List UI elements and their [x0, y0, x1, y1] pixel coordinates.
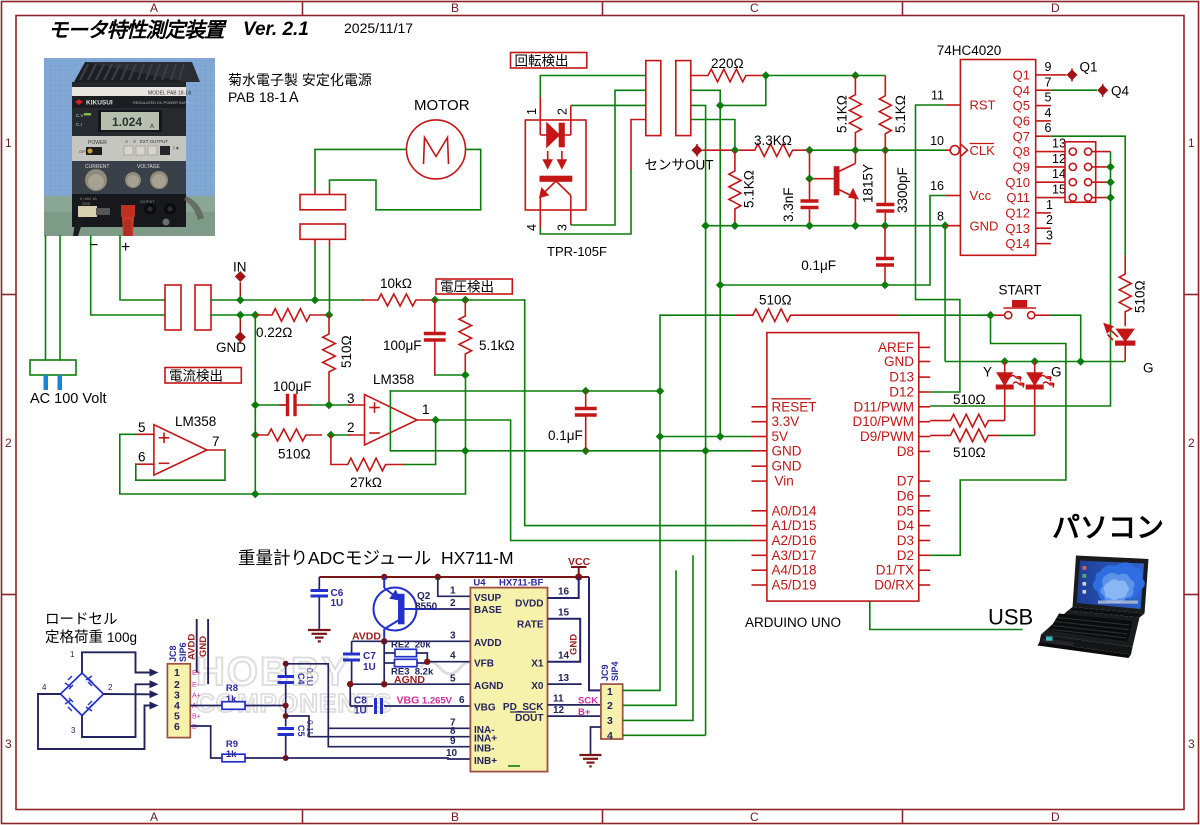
svg-text:D: D: [1051, 1, 1060, 15]
svg-text:1U: 1U: [331, 598, 344, 609]
svg-text:3.3KΩ: 3.3KΩ: [754, 133, 792, 148]
svg-text:C: C: [750, 1, 759, 15]
svg-text:JC8: JC8: [168, 645, 178, 662]
svg-text:G: G: [1051, 365, 1062, 380]
svg-text:C.I: C.I: [76, 122, 82, 127]
svg-text:+: +: [121, 239, 130, 256]
svg-text:9: 9: [450, 736, 456, 747]
svg-text:Y: Y: [983, 365, 992, 380]
svg-text:USB: USB: [988, 605, 1033, 630]
svg-text:START: START: [999, 283, 1042, 298]
wire TPR pin1 row: [540, 76, 646, 98]
resistor 27k: [331, 435, 405, 471]
wire clk row: [810, 149, 947, 151]
wire motor conn to IN node: [314, 246, 316, 300]
svg-text:0.1μF: 0.1μF: [548, 428, 583, 443]
LED Y: [997, 362, 1025, 421]
svg-text:AVDD: AVDD: [187, 634, 198, 660]
svg-text:AGND: AGND: [474, 681, 503, 692]
wire motor conn to sense node: [329, 246, 331, 315]
capacitor 100uF input: [255, 396, 329, 415]
svg-text:GND: GND: [216, 340, 246, 355]
wire 27k feedback: [405, 420, 436, 465]
svg-text:1.024: 1.024: [112, 115, 142, 129]
svg-text:74HC4020: 74HC4020: [937, 43, 1002, 58]
svg-text:1815Y: 1815Y: [861, 164, 876, 203]
svg-text:11: 11: [931, 89, 944, 103]
label 回転検出: [511, 53, 587, 69]
RE2 RE3: [384, 641, 470, 684]
svg-text:2: 2: [1046, 213, 1053, 227]
wire 510 pullup column: [254, 315, 256, 494]
svg-text:15: 15: [558, 608, 570, 619]
svg-text:510Ω: 510Ω: [953, 445, 986, 460]
svg-text:A1/D15: A1/D15: [772, 518, 817, 533]
svg-text:VOLTAGE: VOLTAGE: [137, 164, 161, 170]
IC 74HC4020: [946, 60, 1069, 256]
svg-text:12: 12: [1052, 152, 1066, 166]
bridge wires: [38, 652, 150, 749]
svg-text:IN: IN: [233, 260, 247, 275]
svg-text:GND: GND: [82, 202, 91, 206]
svg-text:センサOUT: センサOUT: [645, 158, 714, 173]
watermark: [196, 650, 480, 718]
AC plug: [30, 360, 76, 375]
svg-text:2: 2: [556, 108, 570, 115]
svg-text:C.V: C.V: [76, 113, 84, 118]
connector J-M bottom: [300, 224, 346, 246]
svg-text:B: B: [451, 810, 459, 824]
photointerrupter TPR-105F: [525, 97, 586, 228]
wire RST from D12: [916, 105, 960, 392]
svg-text:DOUT: DOUT: [515, 713, 543, 724]
svg-text:4: 4: [607, 730, 613, 742]
svg-text:13: 13: [1052, 137, 1066, 151]
wire PSU minus output: [91, 236, 165, 315]
wire TPR pin4 row: [540, 170, 631, 234]
svg-text:0~18V 1A: 0~18V 1A: [80, 197, 97, 201]
sensor labels: [645, 56, 911, 273]
svg-text:Vcc: Vcc: [970, 188, 992, 203]
DVDD wire: [548, 577, 601, 690]
svg-text:0.1μF: 0.1μF: [801, 258, 836, 273]
wire JC9 pin1 5V: [623, 689, 660, 691]
svg-text:510Ω: 510Ω: [339, 335, 354, 368]
svg-text:100μF: 100μF: [383, 338, 422, 353]
svg-text:6: 6: [459, 695, 465, 706]
svg-text:SCK: SCK: [578, 696, 598, 707]
resistor 510 LED G: [1119, 255, 1131, 326]
svg-text:D1/TX: D1/TX: [876, 563, 914, 578]
svg-text:B: B: [451, 1, 459, 15]
svg-text:KIKUSUI: KIKUSUI: [86, 100, 113, 107]
IC U4 HX711-BF: [470, 588, 547, 772]
svg-text:2: 2: [450, 598, 456, 609]
AVDD GND feed wires: [197, 619, 208, 684]
svg-text:220Ω: 220Ω: [711, 56, 744, 71]
wire follower loop: [136, 450, 225, 480]
4020 pin names: [970, 68, 1031, 252]
svg-text:SIP4: SIP4: [610, 661, 620, 681]
svg-text:Q9: Q9: [1013, 160, 1030, 175]
svg-text:HX711-BF: HX711-BF: [499, 578, 544, 589]
svg-text:16: 16: [930, 179, 944, 193]
psu top vents: [74, 62, 192, 82]
svg-text:2025/11/17: 2025/11/17: [344, 20, 413, 36]
wire Vcc column: [719, 105, 721, 436]
resistor 3.3k: [739, 144, 812, 157]
svg-text:INB+: INB+: [474, 756, 497, 767]
svg-text:CLK: CLK: [970, 143, 996, 158]
connector J-IN left half: [165, 285, 181, 330]
svg-text:VSUP: VSUP: [474, 593, 502, 604]
svg-text:RATE: RATE: [517, 620, 544, 631]
svg-text:6: 6: [138, 450, 146, 465]
ground C6: [308, 630, 331, 641]
wire USB: [870, 601, 1023, 629]
svg-text:3: 3: [1046, 229, 1053, 243]
svg-text:D8: D8: [897, 444, 914, 459]
svg-text:G: G: [1143, 361, 1154, 376]
IC Arduino UNO: [752, 333, 931, 601]
svg-text:LM358: LM358: [373, 372, 414, 387]
wire gnd rail to arduino: [390, 450, 751, 452]
svg-text:0.22Ω: 0.22Ω: [256, 325, 292, 340]
resistor 510 input: [255, 429, 321, 441]
svg-text:8550: 8550: [415, 602, 438, 613]
svg-text:13: 13: [558, 673, 570, 684]
wire PSU plus output: [120, 236, 165, 300]
svg-text:A: A: [150, 124, 154, 130]
svg-text:Q10: Q10: [1005, 175, 1030, 190]
svg-text:OUTPUT: OUTPUT: [140, 200, 155, 204]
LED G indicator: [1105, 324, 1135, 362]
svg-text:VFB: VFB: [474, 659, 494, 670]
svg-text:GND: GND: [884, 354, 914, 369]
svg-text:4: 4: [450, 651, 456, 662]
resistor 510 D9 to G: [930, 429, 1000, 442]
svg-text:AVDD: AVDD: [474, 638, 502, 649]
wire start to D2: [930, 315, 1066, 555]
4020 pin numbers: [930, 60, 1066, 243]
svg-text:VBG 1.265V: VBG 1.265V: [397, 695, 453, 707]
wire conn row4 to sensor: [691, 120, 735, 151]
capacitor 0.1uF logic: [577, 391, 596, 451]
svg-text:3.3nF: 3.3nF: [781, 187, 796, 222]
svg-text:Q4: Q4: [1013, 83, 1030, 98]
svg-text:ARDUINO UNO: ARDUINO UNO: [745, 615, 841, 630]
ground JC9: [591, 727, 601, 754]
svg-text:LM358: LM358: [175, 414, 216, 429]
wire motor right loop: [330, 149, 481, 209]
svg-text:A4/D18: A4/D18: [772, 563, 817, 578]
svg-text:1: 1: [422, 402, 430, 417]
svg-text:VBG: VBG: [474, 703, 496, 714]
resistor 510 D10 to Y: [930, 414, 1005, 427]
svg-text:2: 2: [607, 700, 613, 712]
svg-text:A+: A+: [192, 693, 201, 700]
svg-text:Q2: Q2: [417, 591, 431, 602]
svg-text:B+: B+: [578, 707, 591, 718]
svg-text:1: 1: [70, 650, 75, 659]
svg-text:1k: 1k: [226, 694, 237, 705]
svg-text:パソコン: パソコン: [1052, 512, 1164, 543]
svg-text:D3: D3: [897, 533, 914, 548]
svg-text:MOTOR: MOTOR: [414, 97, 470, 114]
svg-text:TPR-105F: TPR-105F: [547, 244, 607, 259]
svg-text:5.1KΩ: 5.1KΩ: [835, 95, 850, 133]
svg-text:Q12: Q12: [1005, 206, 1030, 221]
wire opamp1 out to A1: [436, 420, 752, 541]
svg-text:Q11: Q11: [1006, 190, 1030, 205]
wire Vcc top row: [766, 75, 886, 77]
svg-text:RE2 20k: RE2 20k: [391, 640, 431, 651]
svg-text:モータ特性測定装置: モータ特性測定装置: [48, 19, 227, 42]
wire AC mains right: [59, 236, 61, 360]
svg-text:3: 3: [450, 631, 456, 642]
svg-text:D0/RX: D0/RX: [874, 578, 914, 593]
svg-text:27kΩ: 27kΩ: [350, 475, 382, 490]
svg-text:AREF: AREF: [878, 340, 914, 355]
svg-text:14: 14: [1052, 167, 1066, 181]
connector JC8: [167, 664, 190, 738]
svg-text:U4: U4: [473, 578, 486, 589]
svg-text:R8: R8: [226, 683, 238, 694]
wire 5V rail upper: [390, 390, 660, 392]
svg-text:Q1: Q1: [1080, 60, 1098, 75]
svg-text:AC 100 Volt: AC 100 Volt: [30, 391, 107, 407]
load cell bridge: [61, 673, 104, 716]
svg-text:D4: D4: [897, 518, 915, 533]
svg-text:510Ω: 510Ω: [953, 392, 986, 407]
svg-text:5.1KΩ: 5.1KΩ: [742, 170, 757, 208]
VSUP/BASE wires: [438, 577, 471, 609]
title: [48, 19, 413, 105]
svg-text:INB-: INB-: [474, 744, 495, 755]
svg-text:GND: GND: [569, 634, 580, 655]
resistor 5.1k pulldown: [729, 150, 741, 226]
capacitor 100uF vdiv: [426, 300, 445, 375]
svg-text:A3/D17: A3/D17: [772, 548, 817, 563]
connector J-M top: [300, 189, 346, 210]
svg-text:PD_SCK: PD_SCK: [503, 702, 544, 713]
svg-text:A: A: [150, 810, 158, 824]
resistor 5.1k vdiv: [459, 300, 472, 375]
svg-text:510Ω: 510Ω: [278, 447, 311, 462]
svg-text:1U: 1U: [354, 706, 367, 717]
svg-text:C5: C5: [296, 725, 306, 737]
svg-text:回転検出: 回転検出: [515, 54, 569, 69]
svg-text:3.3V: 3.3V: [772, 414, 800, 429]
svg-text:5.1kΩ: 5.1kΩ: [479, 338, 515, 353]
svg-text:3: 3: [71, 726, 76, 735]
resistor 5.1k no.1: [849, 76, 861, 148]
node sensor OUT: [696, 144, 698, 157]
wire vdiv to A2 drop: [525, 300, 752, 526]
svg-text:A2/D16: A2/D16: [772, 533, 817, 548]
svg-text:Q13: Q13: [1005, 221, 1030, 236]
capacitor C6: [311, 577, 329, 629]
svg-text:2: 2: [347, 420, 355, 435]
wire pin5 input: [120, 375, 466, 494]
node GND: [239, 315, 241, 343]
svg-text:1k: 1k: [226, 749, 237, 760]
svg-text:D10/PWM: D10/PWM: [852, 414, 914, 429]
svg-text:D9/PWM: D9/PWM: [860, 429, 914, 444]
svg-text:A: A: [150, 1, 158, 15]
svg-text:1: 1: [1046, 198, 1053, 212]
svg-text:▯ ◉: ▯ ◉: [173, 146, 180, 150]
svg-text:A0/D14: A0/D14: [772, 503, 818, 518]
node Q1: [1071, 69, 1073, 82]
svg-text:BASE: BASE: [474, 605, 502, 616]
svg-text:1: 1: [5, 136, 12, 150]
svg-text:GND: GND: [198, 636, 209, 657]
svg-text:E-: E-: [192, 682, 200, 689]
svg-text:1: 1: [450, 586, 456, 597]
svg-text:定格荷重 100g: 定格荷重 100g: [45, 629, 137, 646]
arduino pin names: [772, 340, 915, 593]
wire start right to gnd rail: [1050, 315, 1081, 361]
svg-text:2: 2: [5, 436, 12, 450]
connector J-IN right half: [195, 285, 211, 330]
svg-text:B+: B+: [192, 714, 201, 721]
svg-text:D6: D6: [897, 488, 914, 503]
power supply photo: [44, 58, 215, 236]
svg-text:12: 12: [553, 705, 565, 716]
svg-text:GND: GND: [772, 459, 802, 474]
motor M1: [407, 120, 466, 179]
load cell label: [45, 612, 137, 646]
connector JC9: [601, 684, 623, 739]
wire jumper common to D11: [930, 152, 1110, 406]
transistor 1815Y: [810, 150, 858, 226]
svg-text:3: 3: [5, 737, 12, 751]
wire gnd rail: [706, 225, 946, 227]
resistor 10k: [363, 294, 435, 306]
svg-text:OFF: OFF: [79, 149, 88, 154]
svg-text:3: 3: [607, 715, 613, 727]
resistor R8 1k: [190, 702, 285, 710]
svg-text:510Ω: 510Ω: [1133, 280, 1148, 313]
capacitor 0.1uF vcc: [876, 226, 894, 285]
svg-text:GND: GND: [970, 219, 999, 234]
wire conn row2 to Vcc: [691, 76, 766, 106]
svg-text:A V EXT OUTPUT: A V EXT OUTPUT: [125, 139, 168, 144]
AGND line: [350, 684, 470, 714]
svg-text:11: 11: [553, 694, 564, 705]
svg-text:1: 1: [607, 686, 613, 698]
LED G small: [1027, 362, 1055, 436]
wire motor left: [315, 149, 407, 188]
svg-text:1: 1: [525, 108, 539, 115]
svg-text:RST: RST: [970, 98, 996, 113]
wire TPR pin2 row: [571, 104, 646, 106]
svg-text:8: 8: [937, 209, 944, 223]
SCK DOUT wires: [548, 705, 601, 716]
svg-text:D11/PWM: D11/PWM: [853, 399, 914, 414]
svg-text:電流検出: 電流検出: [169, 369, 223, 384]
svg-text:D: D: [1051, 810, 1060, 824]
wire AC mains left: [45, 236, 47, 360]
svg-text:電圧検出: 電圧検出: [440, 280, 494, 295]
svg-text:1U: 1U: [363, 662, 376, 673]
svg-text:X0: X0: [531, 681, 544, 692]
svg-text:9: 9: [1045, 60, 1052, 74]
svg-text:6: 6: [1045, 121, 1052, 135]
svg-text:Q4: Q4: [1111, 84, 1130, 99]
X0 stub: [548, 683, 582, 685]
wire JC9 pin4 GND: [623, 734, 706, 736]
wire IN to 10k: [240, 299, 363, 301]
svg-text:RESET: RESET: [772, 399, 817, 414]
op-amp U1A: [136, 425, 225, 475]
svg-text:Vin: Vin: [775, 474, 794, 489]
svg-text:C4: C4: [296, 673, 306, 685]
wire TPR pin3 row: [571, 90, 646, 225]
laptop picture: [1038, 556, 1149, 659]
op-amp U1B: [349, 395, 436, 446]
node Q4: [1051, 89, 1097, 91]
capacitor 3300pF: [876, 150, 894, 226]
svg-text:重量計りADCモジュール HX711-M: 重量計りADCモジュール HX711-M: [238, 548, 514, 568]
svg-text:Q14: Q14: [1005, 236, 1030, 251]
svg-text:D12: D12: [889, 385, 914, 400]
svg-text:5V: 5V: [772, 429, 789, 444]
svg-text:10: 10: [930, 134, 944, 148]
svg-text:GND: GND: [772, 443, 802, 458]
svg-text:16: 16: [558, 587, 570, 598]
svg-text:510Ω: 510Ω: [759, 293, 792, 308]
svg-text:REGULATED DC POWER SUPPLY: REGULATED DC POWER SUPPLY: [133, 101, 194, 105]
wire vdiv bottom: [435, 374, 466, 376]
svg-text:D5: D5: [897, 503, 914, 518]
svg-text:MODEL PAB 18-1A: MODEL PAB 18-1A: [148, 91, 192, 97]
wire IN row: [211, 299, 240, 301]
wire 5V column to JC9 pin1: [659, 315, 661, 690]
svg-text:D2: D2: [897, 548, 914, 563]
svg-text:PAB 18-1Ａ: PAB 18-1Ａ: [228, 89, 301, 105]
svg-text:3: 3: [347, 391, 355, 406]
resistor R9 1k: [190, 726, 285, 762]
svg-text:4: 4: [525, 224, 539, 231]
connector J-S right half: [676, 61, 691, 136]
psu front: [72, 82, 186, 227]
svg-text:C7: C7: [363, 651, 376, 662]
svg-text:0.1U: 0.1U: [305, 720, 315, 738]
wire 5V rail to arduino: [660, 436, 752, 438]
connector J-S left half: [646, 61, 661, 136]
transistor Q2 8550: [374, 577, 438, 641]
svg-text:Ver. 2.1: Ver. 2.1: [243, 19, 309, 40]
svg-text:1: 1: [1188, 136, 1195, 150]
resistor 510 vertical: [323, 315, 336, 405]
svg-text:D7: D7: [897, 474, 914, 489]
resistor 0.22ohm: [255, 309, 329, 322]
svg-text:5: 5: [1045, 91, 1052, 105]
svg-text:JC9: JC9: [600, 664, 610, 681]
node IN: [239, 283, 241, 300]
svg-text:A-: A-: [192, 703, 200, 710]
svg-text:2: 2: [108, 683, 113, 692]
svg-text:2: 2: [1188, 436, 1195, 450]
wire conn row3 to gnd column: [691, 105, 706, 735]
wire sense row: [211, 314, 255, 316]
svg-text:C: C: [750, 810, 759, 824]
svg-text:4: 4: [42, 683, 47, 692]
svg-text:Q7: Q7: [1013, 129, 1030, 144]
resistor 5.1k no.2: [879, 76, 891, 150]
